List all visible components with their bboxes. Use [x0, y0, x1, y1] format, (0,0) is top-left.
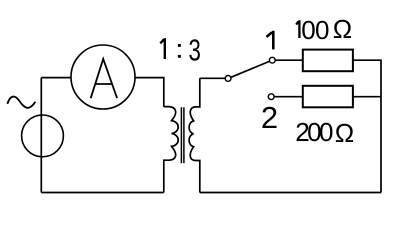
- label: switch position 1: [267, 31, 274, 50]
- wire: left vertical rail: [40, 78, 42, 193]
- label: transformer ratio colon: [178, 44, 181, 58]
- svg-text:200: 200: [295, 117, 333, 147]
- transformer core line left: [180, 107, 182, 163]
- wire: bottom-right horizontal from secondary to right rail: [200, 192, 381, 194]
- switch contact 2 circle: [268, 94, 274, 100]
- svg-text:00: 00: [301, 15, 329, 45]
- label: resistor value 100 digit 1: [296, 20, 299, 38]
- resistor R1 body 100 ohm: [303, 50, 353, 72]
- AC waveform tilde symbol: [7, 97, 35, 108]
- switch S1 pole contact circle: [225, 76, 231, 82]
- label: transformer ratio digit 1: [160, 38, 165, 59]
- ammeter letter A: [91, 59, 117, 98]
- svg-text:Ω: Ω: [333, 14, 352, 44]
- transformer core line right: [183, 107, 185, 163]
- switch contact 1 circle: [269, 57, 275, 63]
- transformer T1 primary winding: [164, 107, 178, 193]
- wire: contact 1 to resistor R1: [275, 59, 303, 61]
- wire: contact 2 to resistor R2: [274, 96, 303, 98]
- svg-text:Ω: Ω: [335, 118, 354, 148]
- svg-text:2: 2: [261, 100, 278, 135]
- resistor R2 body 200 ohm: [303, 86, 353, 108]
- wire: top-left horizontal from left rail to ammeter: [41, 77, 71, 79]
- wire: ammeter right to transformer primary lead: [135, 78, 164, 107]
- transformer T1 secondary winding: [189, 78, 200, 192]
- wire: bottom-left horizontal to transformer primary: [41, 192, 164, 194]
- wire: resistor R1 to right rail and down: [353, 60, 381, 192]
- ammeter A1 circle: [71, 45, 135, 109]
- svg-text:3: 3: [189, 33, 201, 67]
- wire: secondary top to switch pole: [200, 77, 225, 79]
- switch S1 blade to position 1: [231, 61, 270, 77]
- wire: resistor R2 to right rail: [353, 96, 381, 98]
- AC source G1 circle: [22, 115, 64, 157]
